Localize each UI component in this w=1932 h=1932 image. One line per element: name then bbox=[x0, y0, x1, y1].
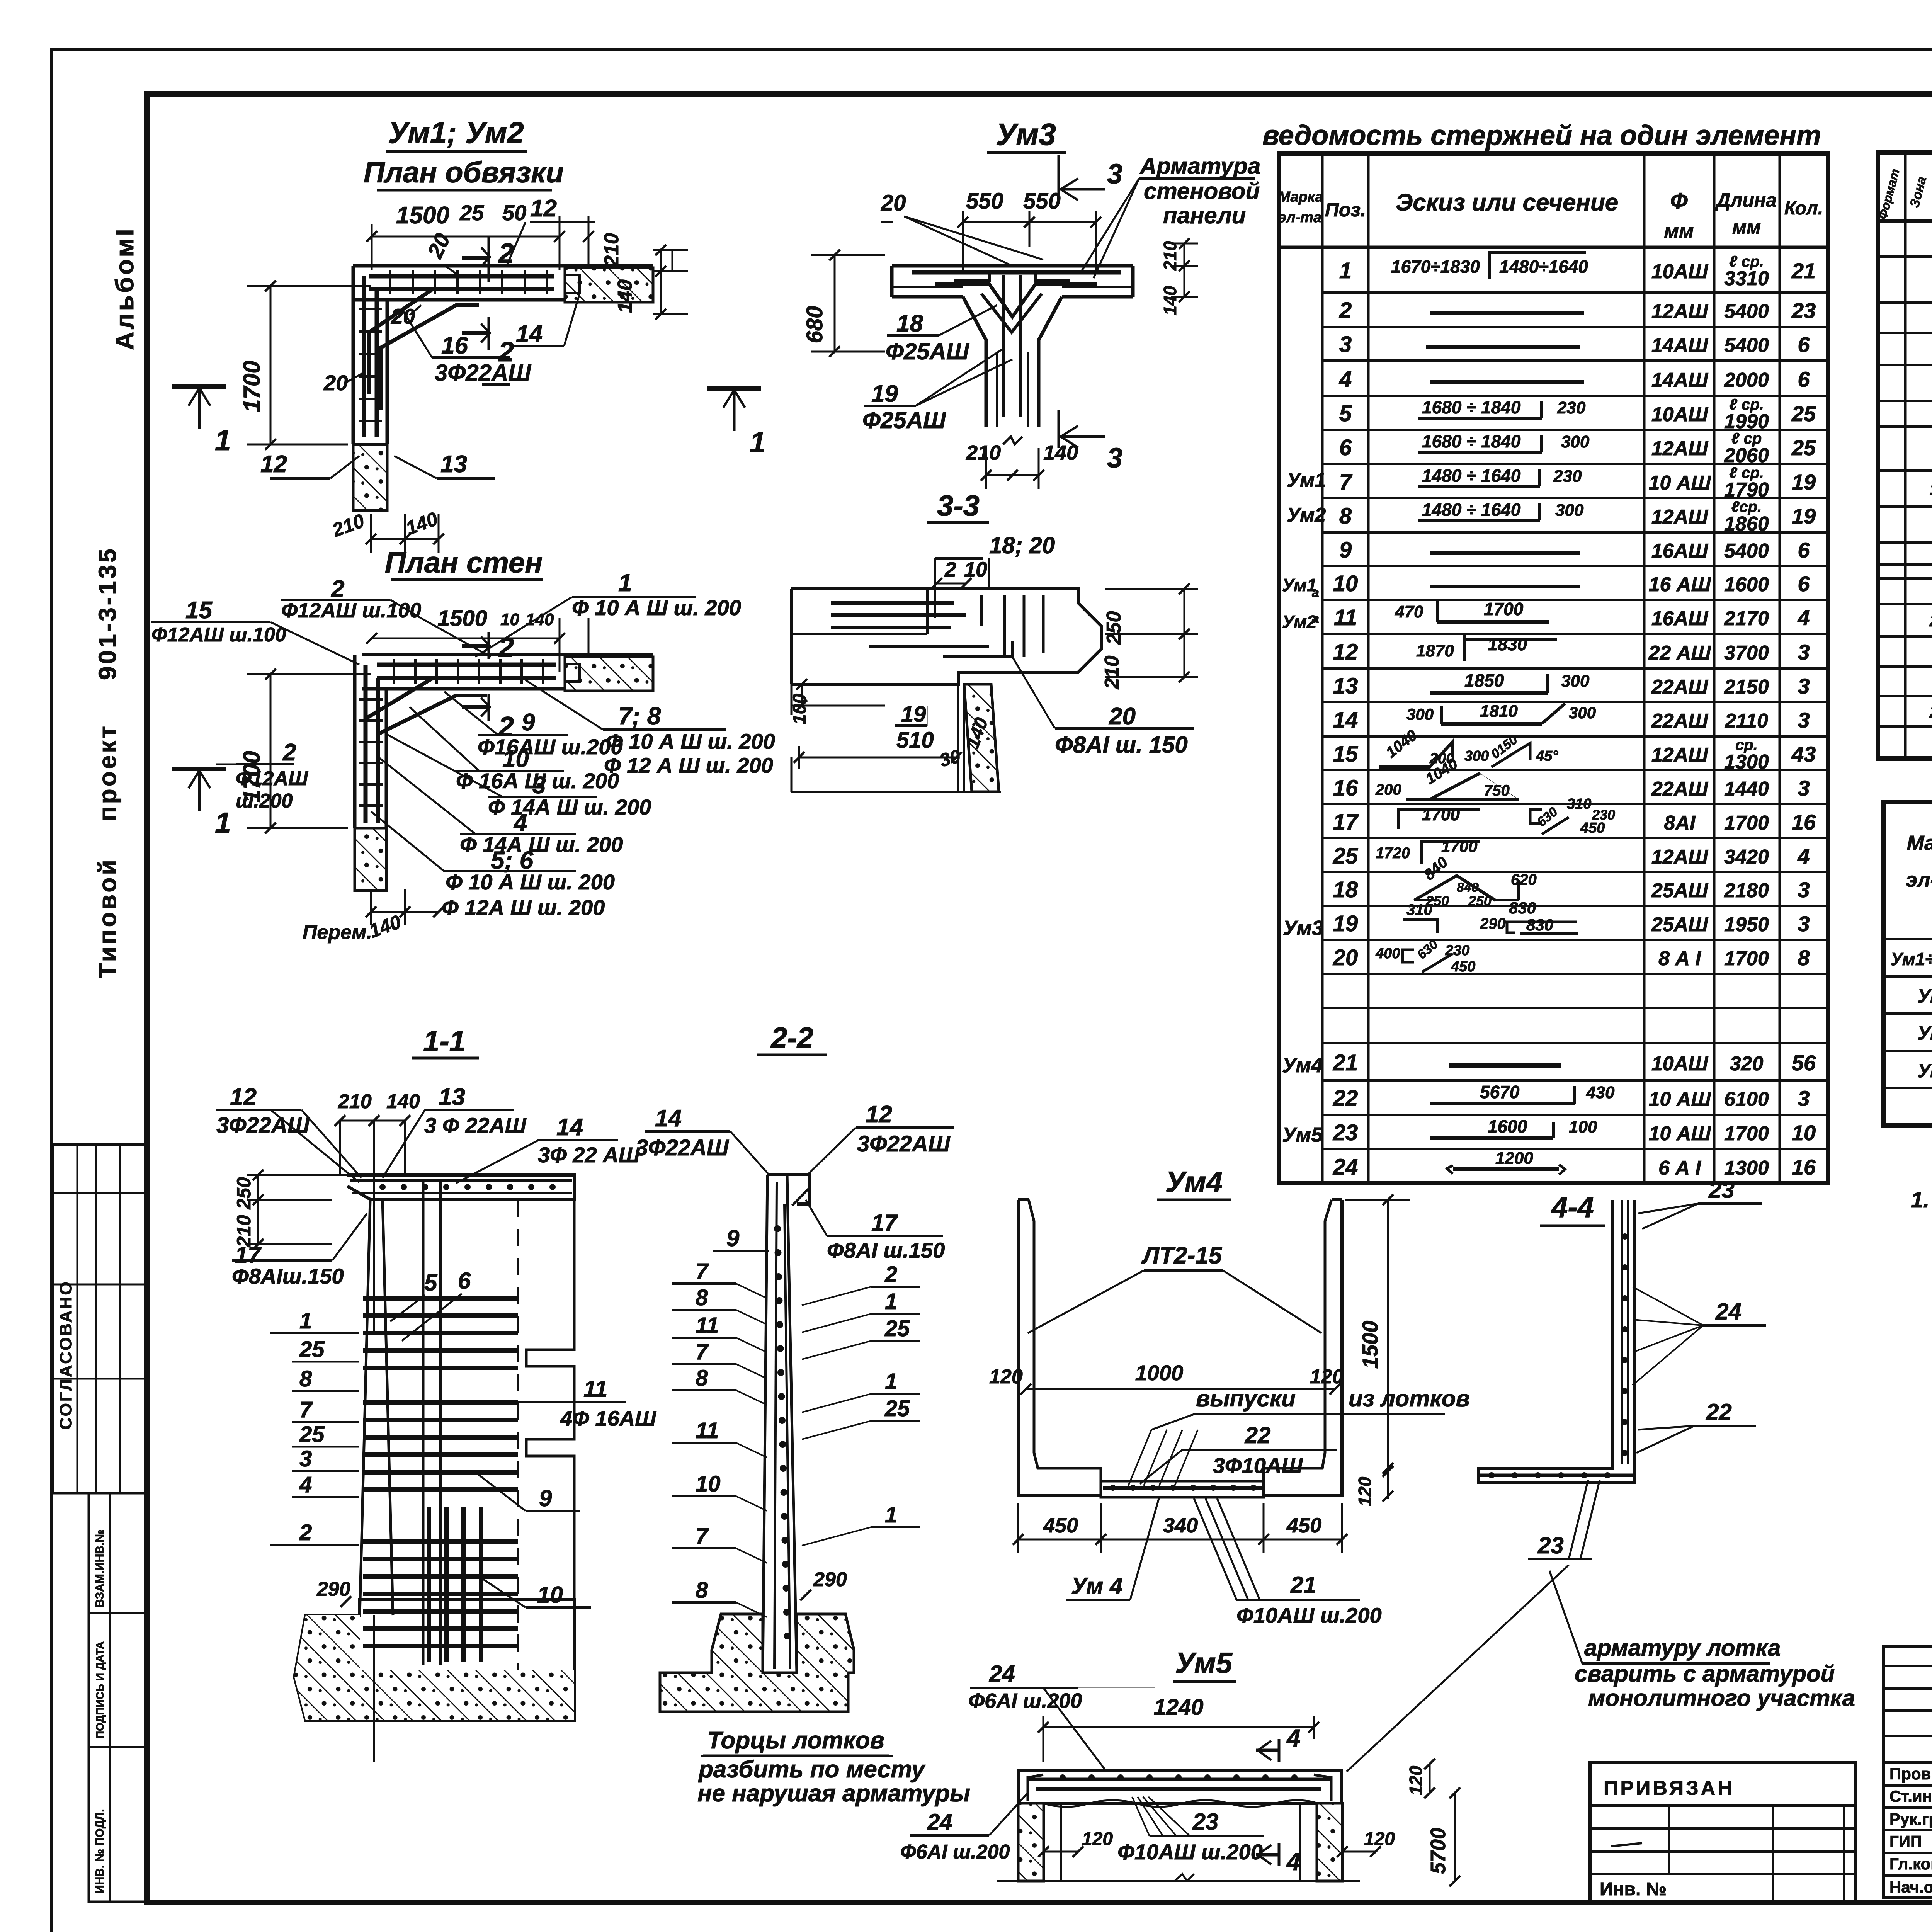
svg-text:2170: 2170 bbox=[1724, 607, 1769, 630]
section marker 2 bottom bbox=[488, 317, 490, 350]
plan sten dim 1700 bbox=[270, 674, 272, 828]
svg-text:1: 1 bbox=[215, 806, 231, 839]
svg-text:1670÷1830: 1670÷1830 bbox=[1391, 257, 1480, 277]
um5 break squiggle bbox=[1175, 1874, 1194, 1881]
svg-text:19: 19 bbox=[901, 702, 926, 727]
svg-text:Ум5: Ум5 bbox=[1282, 1123, 1323, 1146]
svg-text:140: 140 bbox=[526, 610, 554, 629]
svg-text:23: 23 bbox=[1192, 1809, 1219, 1835]
svg-text:1950: 1950 bbox=[1724, 913, 1769, 936]
svg-text:Ум3: Ум3 bbox=[1283, 917, 1323, 940]
svg-text:19: 19 bbox=[871, 381, 898, 407]
svg-text:18: 18 bbox=[896, 310, 923, 337]
svg-text:1480÷1640: 1480÷1640 bbox=[1499, 257, 1588, 277]
svg-text:1: 1 bbox=[1339, 258, 1352, 283]
um3 slab outline bbox=[892, 264, 1133, 268]
svg-text:300: 300 bbox=[1406, 705, 1434, 723]
svg-text:Ф6АI ш.200: Ф6АI ш.200 bbox=[900, 1841, 1010, 1863]
svg-text:210: 210 bbox=[966, 441, 1001, 464]
svg-text:1830: 1830 bbox=[1488, 634, 1527, 654]
svg-text:Ум4: Ум4 bbox=[1165, 1166, 1223, 1199]
svg-text:25: 25 bbox=[1791, 435, 1816, 460]
svg-text:43: 43 bbox=[1791, 742, 1816, 766]
svg-text:1720: 1720 bbox=[1376, 845, 1410, 862]
svg-text:6: 6 bbox=[1798, 571, 1810, 596]
svg-text:2-2: 2-2 bbox=[770, 1022, 813, 1054]
svg-text:25АШ: 25АШ bbox=[1651, 913, 1708, 936]
svg-text:4: 4 bbox=[1797, 605, 1810, 630]
svg-text:22АШ: 22АШ bbox=[1651, 778, 1708, 800]
um3 rib rebar verticals bbox=[1002, 275, 1005, 417]
um4 left wall outline bbox=[1034, 1221, 1101, 1481]
svg-text:Ум 4: Ум 4 bbox=[1071, 1573, 1123, 1599]
3-3 hatched wall below bbox=[964, 684, 999, 792]
svg-text:210: 210 bbox=[600, 233, 623, 267]
svg-text:16АШ: 16АШ bbox=[1651, 607, 1708, 630]
svg-text:2: 2 bbox=[331, 576, 344, 602]
1-1 foundation hatched bbox=[294, 1599, 574, 1720]
svg-text:10: 10 bbox=[537, 1582, 563, 1608]
svg-text:Ф 10 А Ш ш. 200: Ф 10 А Ш ш. 200 bbox=[446, 870, 615, 894]
svg-text:22АШ: 22АШ bbox=[1651, 676, 1708, 698]
svg-text:сварить с арматурой: сварить с арматурой bbox=[1575, 1661, 1835, 1687]
2-2 rebar dots along wall bbox=[774, 1225, 781, 1232]
3-3 bottom axis line bbox=[791, 791, 1001, 793]
svg-text:3: 3 bbox=[1798, 912, 1810, 936]
svg-text:Ф8АI ш.150: Ф8АI ш.150 bbox=[827, 1238, 945, 1262]
svg-text:680: 680 bbox=[802, 306, 827, 344]
right end dims 210 140 bbox=[672, 250, 673, 271]
svg-text:1600: 1600 bbox=[1724, 573, 1769, 596]
bottom dims 210 140 bbox=[371, 538, 405, 540]
wall plan top: outer line bbox=[353, 264, 653, 268]
um5 ground line bbox=[997, 1880, 1360, 1882]
svg-text:3: 3 bbox=[1107, 443, 1122, 474]
svg-text:550: 550 bbox=[966, 189, 1003, 214]
personnel table outer bbox=[1884, 1647, 1932, 1898]
svg-text:1870: 1870 bbox=[1416, 641, 1454, 660]
svg-text:300: 300 bbox=[1555, 501, 1584, 520]
svg-text:3Ф22АШ: 3Ф22АШ bbox=[216, 1113, 310, 1138]
svg-text:3Ф 22 АШ: 3Ф 22 АШ bbox=[538, 1143, 640, 1167]
svg-text:14АШ: 14АШ bbox=[1651, 334, 1708, 357]
plan sten top wall inner bbox=[362, 687, 565, 691]
svg-text:23: 23 bbox=[1537, 1532, 1564, 1558]
svg-text:Ум1÷ Ум2А: Ум1÷ Ум2А bbox=[1891, 949, 1932, 969]
svg-text:14АШ: 14АШ bbox=[1651, 369, 1708, 391]
svg-text:300: 300 bbox=[1569, 704, 1596, 722]
sketch row3 straight bbox=[1426, 345, 1580, 349]
svg-text:16: 16 bbox=[1333, 776, 1358, 801]
personnel empty top rows bbox=[1884, 1665, 1932, 1667]
um3 top rebar hooks bbox=[912, 270, 1121, 275]
svg-text:1500: 1500 bbox=[396, 202, 449, 229]
um3 right dims 210 140 bbox=[1171, 265, 1198, 267]
svg-text:470: 470 bbox=[1395, 602, 1423, 621]
svg-text:12АШ: 12АШ bbox=[1651, 437, 1708, 460]
svg-text:3420: 3420 bbox=[1724, 846, 1769, 868]
um3 slab inner line right bbox=[1062, 286, 1133, 288]
sketch row22 5670 430 bbox=[1430, 1102, 1575, 1105]
svg-text:25: 25 bbox=[884, 1396, 910, 1421]
svg-text:12: 12 bbox=[230, 1084, 257, 1111]
svg-text:1: 1 bbox=[885, 1289, 897, 1314]
svg-text:300: 300 bbox=[1561, 672, 1590, 690]
svg-text:Ум3: Ум3 bbox=[996, 117, 1056, 151]
1-1 top slab bbox=[347, 1175, 574, 1200]
svg-text:Гл.констр.: Гл.констр. bbox=[1889, 1855, 1932, 1873]
svg-text:Арматура: Арматура bbox=[1139, 153, 1260, 179]
svg-text:ВЗАМ.ИНВ.№: ВЗАМ.ИНВ.№ bbox=[94, 1529, 106, 1607]
svg-text:6100: 6100 bbox=[1724, 1088, 1769, 1111]
um4 bottom dims 450 340 450 bbox=[1018, 1539, 1101, 1541]
svg-text:430: 430 bbox=[1586, 1083, 1615, 1102]
svg-text:Нач.отд: Нач.отд bbox=[1889, 1878, 1932, 1896]
svg-text:Ум 4: Ум 4 bbox=[1917, 1022, 1932, 1044]
svg-text:11: 11 bbox=[583, 1376, 607, 1402]
svg-text:25: 25 bbox=[884, 1316, 910, 1341]
svg-text:Ф12АШ: Ф12АШ bbox=[236, 767, 308, 790]
svg-text:2110: 2110 bbox=[1725, 710, 1768, 732]
svg-text:1: 1 bbox=[885, 1369, 897, 1394]
svg-text:10: 10 bbox=[696, 1471, 721, 1497]
svg-text:18: 18 bbox=[1333, 877, 1358, 902]
svg-text:19: 19 bbox=[1333, 911, 1358, 936]
svg-text:17: 17 bbox=[871, 1210, 898, 1236]
svg-text:10АШ: 10АШ bbox=[1651, 1053, 1708, 1075]
svg-text:8: 8 bbox=[696, 1366, 708, 1391]
1-1 horizontal rebars group bbox=[363, 1296, 518, 1301]
svg-text:1860: 1860 bbox=[1724, 513, 1769, 535]
svg-text:24: 24 bbox=[1715, 1299, 1742, 1325]
svg-text:230: 230 bbox=[1553, 467, 1582, 486]
svg-text:3Ф10АШ: 3Ф10АШ bbox=[1213, 1453, 1303, 1478]
vertical wall rebar right bbox=[375, 289, 379, 437]
um5 pier inner lines bbox=[1060, 1803, 1062, 1881]
svg-text:2: 2 bbox=[498, 632, 514, 663]
svg-text:1790: 1790 bbox=[1724, 479, 1769, 501]
svg-text:2: 2 bbox=[944, 558, 956, 581]
um5 slab rebars bbox=[1028, 1778, 1331, 1781]
sketch row2 straight bbox=[1430, 311, 1584, 315]
um3 hat shape rebar 18 bbox=[935, 284, 1097, 317]
svg-text:5670: 5670 bbox=[1480, 1082, 1520, 1102]
svg-text:2: 2 bbox=[884, 1262, 897, 1287]
svg-text:22АШ: 22АШ bbox=[1651, 710, 1708, 732]
3-3 wall thin lines bbox=[957, 684, 959, 792]
svg-text:10 АШ: 10 АШ bbox=[1649, 1088, 1711, 1111]
um3 dim 680 bbox=[834, 255, 836, 352]
svg-text:Эскиз или сечение: Эскиз или сечение bbox=[1396, 189, 1619, 216]
svg-text:20: 20 bbox=[1109, 703, 1136, 730]
svg-text:13: 13 bbox=[440, 451, 467, 478]
svg-text:7: 7 bbox=[1339, 469, 1353, 495]
svg-text:Ф10АШ ш.200: Ф10АШ ш.200 bbox=[1236, 1603, 1382, 1628]
svg-text:8АI: 8АI bbox=[1664, 812, 1696, 834]
2-2 foundation hatched bbox=[660, 1614, 854, 1712]
3-3 slab outline bbox=[791, 589, 1101, 684]
svg-text:4: 4 bbox=[299, 1472, 312, 1497]
svg-text:6: 6 bbox=[458, 1268, 471, 1294]
um5 wavy soffit line bbox=[1043, 1800, 1318, 1807]
concrete panel right end hatched bbox=[565, 268, 653, 302]
sketch row17 1700 and hook bbox=[1399, 810, 1480, 829]
svg-text:3 Ф 22АШ: 3 Ф 22АШ bbox=[424, 1113, 527, 1138]
svg-text:Кол.: Кол. bbox=[1784, 198, 1823, 219]
svg-text:7: 7 bbox=[299, 1397, 313, 1422]
svg-text:100: 100 bbox=[1569, 1117, 1597, 1136]
3-3 right dims 250 210 bbox=[1105, 588, 1198, 590]
svg-text:8 А I: 8 А I bbox=[1658, 947, 1701, 970]
svg-text:13: 13 bbox=[1333, 673, 1358, 699]
svg-text:3: 3 bbox=[1798, 1086, 1810, 1111]
svg-text:ПРИВЯЗАН: ПРИВЯЗАН bbox=[1604, 1777, 1735, 1799]
section marker 1 right bbox=[707, 386, 761, 391]
wall plan top: inner line bbox=[353, 298, 565, 302]
svg-text:1480 ÷ 1640: 1480 ÷ 1640 bbox=[1422, 466, 1521, 486]
svg-text:Длина: Длина bbox=[1715, 189, 1777, 211]
svg-text:300: 300 bbox=[1561, 432, 1590, 451]
svg-text:8: 8 bbox=[1798, 946, 1810, 970]
svg-text:22: 22 bbox=[1333, 1086, 1358, 1111]
vertical wall plan left edge bbox=[352, 266, 355, 444]
svg-text:3: 3 bbox=[1798, 776, 1810, 800]
svg-text:Перем.: Перем. bbox=[303, 921, 372, 944]
um5 slab outline bbox=[1018, 1770, 1341, 1803]
corner diagonal rebar 16 bbox=[369, 289, 433, 394]
svg-text:19: 19 bbox=[1792, 504, 1816, 528]
3-3 vertical bars bbox=[1003, 595, 1006, 657]
soglasovano box grid bbox=[53, 1145, 147, 1493]
1-1 bottom axis vertical bbox=[373, 1615, 375, 1762]
svg-text:3Ф22АШ: 3Ф22АШ bbox=[435, 360, 531, 386]
wall plan rebar line upper bbox=[369, 274, 554, 279]
svg-text:12: 12 bbox=[530, 195, 557, 222]
svg-text:1600: 1600 bbox=[1488, 1116, 1527, 1136]
svg-text:2180: 2180 bbox=[1724, 879, 1769, 902]
4-4 rebar dots vertical bbox=[1622, 1233, 1628, 1240]
um5 left pier hatched bbox=[1018, 1803, 1044, 1881]
1-1 dims 250 210 left bbox=[247, 1174, 348, 1176]
svg-text:12АШ: 12АШ bbox=[1651, 744, 1708, 766]
plan sten concrete panel right hatched bbox=[565, 657, 653, 691]
svg-text:10 АШ: 10 АШ bbox=[1649, 1122, 1711, 1145]
svg-text:монолитного участка: монолитного участка bbox=[1588, 1685, 1855, 1711]
plan sten bottom dims bbox=[371, 911, 405, 913]
spec header thick underline bbox=[1878, 219, 1932, 223]
1-1 dashed панель line bbox=[517, 1200, 519, 1670]
svg-text:450: 450 bbox=[1451, 959, 1475, 975]
svg-text:1: 1 bbox=[299, 1308, 312, 1333]
svg-text:Ум 3: Ум 3 bbox=[1917, 985, 1932, 1007]
svg-text:15: 15 bbox=[1333, 742, 1358, 767]
svg-text:панели: панели bbox=[1163, 202, 1246, 228]
svg-text:50: 50 bbox=[502, 201, 526, 225]
um5 hook right bbox=[1314, 1775, 1331, 1801]
svg-text:830: 830 bbox=[1526, 916, 1553, 934]
2-2 foundation base lines bbox=[659, 1673, 662, 1712]
svg-text:140: 140 bbox=[386, 1090, 420, 1113]
svg-text:Ф8АI ш. 150: Ф8АI ш. 150 bbox=[1055, 732, 1188, 758]
svg-text:12: 12 bbox=[260, 451, 287, 478]
svg-text:5400: 5400 bbox=[1724, 540, 1769, 562]
vedomost header bottom line bbox=[1279, 246, 1828, 249]
3-3 inner slab line bbox=[791, 633, 927, 635]
svg-text:24: 24 bbox=[1333, 1155, 1358, 1180]
um5 right pier hatched bbox=[1317, 1803, 1342, 1881]
svg-text:Ф 14А Ш ш. 200: Ф 14А Ш ш. 200 bbox=[488, 795, 651, 819]
1-1 vertical rebars bbox=[427, 1507, 431, 1662]
svg-text:3: 3 bbox=[1798, 674, 1810, 698]
um3 leader from 20 to bars bbox=[904, 216, 1012, 266]
plan sten corner diagonals bbox=[366, 678, 433, 773]
um3 inner vertical rib lines bbox=[996, 352, 998, 427]
svg-text:21: 21 bbox=[1791, 259, 1816, 283]
vedomost row lines bbox=[1322, 291, 1828, 294]
svg-text:7: 7 bbox=[696, 1339, 709, 1364]
3-3 left boundary vertical bbox=[790, 589, 793, 684]
svg-text:Ф 12 А Ш ш. 200: Ф 12 А Ш ш. 200 bbox=[604, 753, 773, 777]
svg-text:24: 24 bbox=[927, 1810, 952, 1835]
sketch row9 straight bbox=[1430, 551, 1580, 555]
svg-text:8: 8 bbox=[299, 1366, 312, 1391]
svg-text:3Ф22АШ: 3Ф22АШ bbox=[636, 1135, 729, 1160]
svg-text:Ф12АШ ш.100: Ф12АШ ш.100 bbox=[281, 599, 421, 622]
3-3 small vert dim lines bbox=[980, 595, 983, 626]
svg-text:ИНВ. № ПОДЛ.: ИНВ. № ПОДЛ. bbox=[94, 1809, 106, 1893]
wall plan rebar line lower bbox=[369, 287, 554, 291]
svg-text:21÷22: 21÷22 bbox=[1929, 612, 1932, 630]
svg-text:16: 16 bbox=[1792, 1155, 1816, 1179]
um4 right wall outline bbox=[1264, 1221, 1325, 1481]
svg-text:14: 14 bbox=[655, 1105, 682, 1132]
svg-text:1300: 1300 bbox=[1724, 1157, 1769, 1179]
svg-text:290: 290 bbox=[813, 1568, 847, 1591]
svg-text:3: 3 bbox=[1798, 640, 1810, 664]
svg-text:1680 ÷ 1840: 1680 ÷ 1840 bbox=[1422, 397, 1521, 417]
svg-text:10: 10 bbox=[1792, 1121, 1816, 1145]
plan sten vertical rebars bbox=[364, 665, 368, 823]
svg-text:22 АШ: 22 АШ bbox=[1648, 642, 1711, 664]
svg-text:Ф 12А Ш ш. 200: Ф 12А Ш ш. 200 bbox=[442, 895, 605, 920]
svg-text:120: 120 bbox=[1355, 1476, 1375, 1506]
svg-text:а: а bbox=[1312, 611, 1319, 626]
svg-text:120: 120 bbox=[1310, 1366, 1344, 1388]
wall plan stirrups ticks bbox=[389, 270, 391, 294]
svg-text:4: 4 bbox=[1286, 1724, 1301, 1752]
um3 rib taper bbox=[963, 297, 986, 427]
svg-text:2: 2 bbox=[498, 238, 514, 269]
svg-text:620: 620 bbox=[1511, 871, 1537, 888]
svg-text:12: 12 bbox=[866, 1101, 892, 1128]
svg-text:1700: 1700 bbox=[1724, 1122, 1769, 1145]
svg-text:2: 2 bbox=[299, 1520, 312, 1545]
um4 monolith bottom slab with rebar bbox=[1101, 1481, 1264, 1497]
svg-text:18; 20: 18; 20 bbox=[989, 532, 1055, 558]
svg-text:20: 20 bbox=[881, 190, 906, 216]
svg-text:9: 9 bbox=[539, 1485, 552, 1511]
svg-text:830: 830 bbox=[1509, 899, 1536, 917]
svg-text:Ум1; Ум2: Ум1; Ум2 bbox=[388, 116, 524, 150]
vyborka data row lines bbox=[1884, 938, 1932, 940]
vyborka outer border bbox=[1884, 802, 1932, 1125]
privyazan box bbox=[1590, 1763, 1855, 1901]
svg-text:3: 3 bbox=[1798, 878, 1810, 902]
svg-text:ПОДПИСЬ И ДАТА: ПОДПИСЬ И ДАТА bbox=[94, 1641, 106, 1739]
svg-text:1500: 1500 bbox=[437, 606, 487, 631]
personnel name rows bbox=[1884, 1784, 1932, 1787]
svg-text:1-1: 1-1 bbox=[423, 1025, 466, 1058]
svg-text:24: 24 bbox=[989, 1661, 1015, 1687]
panel key notch bbox=[565, 275, 580, 293]
svg-text:23÷24: 23÷24 bbox=[1929, 703, 1932, 721]
svg-text:120: 120 bbox=[1082, 1829, 1113, 1849]
svg-text:10: 10 bbox=[500, 610, 519, 629]
sketch row10 straight bbox=[1430, 585, 1580, 588]
svg-text:Инв. №: Инв. № bbox=[1600, 1879, 1667, 1900]
um4 dim 1500 right bbox=[1387, 1200, 1389, 1468]
svg-text:14: 14 bbox=[556, 1114, 583, 1141]
svg-text:1810: 1810 bbox=[1480, 702, 1518, 721]
svg-text:13: 13 bbox=[439, 1084, 465, 1111]
svg-text:3-3: 3-3 bbox=[937, 490, 980, 522]
svg-text:3: 3 bbox=[1107, 159, 1122, 190]
svg-text:1500: 1500 bbox=[1358, 1321, 1382, 1369]
svg-text:ш.200: ш.200 bbox=[236, 790, 293, 812]
svg-text:Ф: Ф bbox=[1670, 189, 1688, 214]
svg-text:340: 340 bbox=[1163, 1514, 1198, 1537]
svg-text:7; 8: 7; 8 bbox=[618, 702, 661, 730]
svg-text:Ф12АШ ш.100: Ф12АШ ш.100 bbox=[151, 624, 286, 646]
svg-text:25: 25 bbox=[299, 1422, 325, 1447]
um4 leader lines to bottom rebar bbox=[1128, 1430, 1151, 1486]
svg-text:12: 12 bbox=[1333, 639, 1358, 665]
svg-text:230: 230 bbox=[1557, 398, 1586, 417]
svg-text:310: 310 bbox=[1567, 796, 1591, 812]
um3 break mark bbox=[1003, 437, 1022, 444]
vedomost column lines bbox=[1321, 154, 1324, 1183]
svg-text:18÷20: 18÷20 bbox=[1930, 480, 1932, 498]
vertical wall stirrup ticks bbox=[359, 308, 382, 310]
1-1 slab rebar dots bbox=[379, 1184, 386, 1190]
svg-text:11: 11 bbox=[1334, 605, 1357, 630]
svg-text:Ф 10 А Ш ш. 200: Ф 10 А Ш ш. 200 bbox=[572, 595, 741, 620]
spec outer border bbox=[1878, 153, 1932, 759]
svg-text:22: 22 bbox=[1245, 1422, 1271, 1448]
sketch row21 short line bbox=[1449, 1063, 1561, 1068]
svg-text:1200: 1200 bbox=[1495, 1149, 1533, 1168]
svg-text:а: а bbox=[1312, 585, 1319, 600]
svg-text:1700: 1700 bbox=[1422, 805, 1460, 824]
svg-text:Рук.гр.: Рук.гр. bbox=[1889, 1810, 1932, 1828]
svg-text:320: 320 bbox=[1730, 1053, 1764, 1075]
svg-text:550: 550 bbox=[1023, 189, 1061, 214]
plan sten stirrups bbox=[393, 659, 395, 684]
vertical wall plan right edge bbox=[386, 300, 389, 444]
3-3 rebar bars horizontal bbox=[831, 601, 954, 605]
svg-text:6: 6 bbox=[1798, 332, 1810, 357]
svg-text:9: 9 bbox=[522, 709, 535, 736]
svg-text:СОГЛАСОВАНО: СОГЛАСОВАНО bbox=[56, 1280, 75, 1430]
svg-text:16: 16 bbox=[1792, 810, 1816, 834]
svg-text:140: 140 bbox=[1160, 286, 1180, 315]
vertical wall rebar left bbox=[362, 276, 366, 437]
svg-text:9: 9 bbox=[726, 1225, 740, 1251]
svg-text:не нарушая арматуры: не нарушая арматуры bbox=[697, 1780, 970, 1807]
svg-text:19: 19 bbox=[1792, 470, 1816, 494]
svg-text:210: 210 bbox=[1101, 656, 1123, 690]
3-3 hook rebar bbox=[943, 641, 1012, 657]
